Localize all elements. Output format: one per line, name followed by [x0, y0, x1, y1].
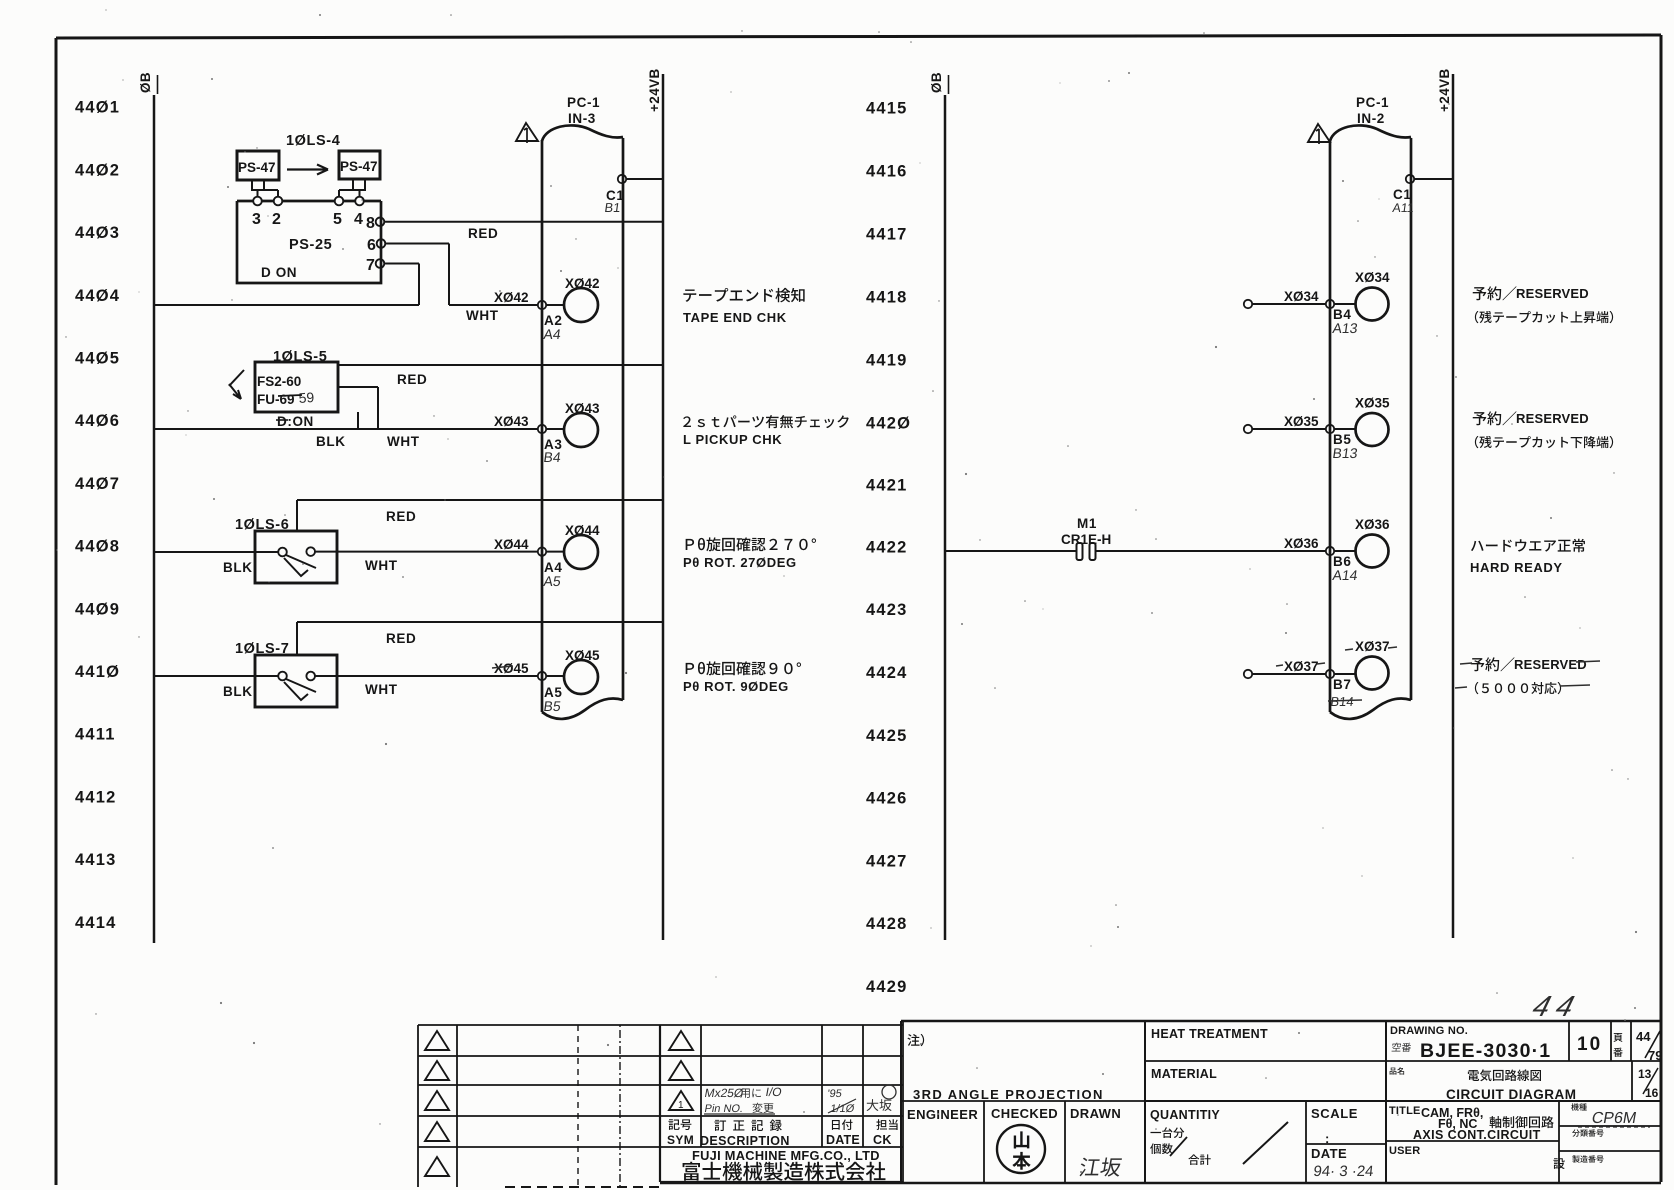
- connector PC-1 IN-2 label: [1356, 95, 1389, 126]
- wire label BLK 4408: [223, 560, 253, 575]
- svg-text:ØB: ØB: [138, 72, 153, 93]
- lamp X045 circle: [564, 660, 598, 694]
- wire label X035: [1284, 414, 1319, 429]
- lamp circle X034: [1356, 288, 1389, 321]
- svg-text:XØ42: XØ42: [565, 276, 600, 291]
- svg-text:DRAWING NO.: DRAWING NO.: [1390, 1025, 1468, 1037]
- svg-text:WHT: WHT: [466, 308, 499, 323]
- node X042 junction: [538, 301, 546, 309]
- svg-text:44: 44: [1636, 1029, 1651, 1044]
- svg-text:44Ø4: 44Ø4: [75, 287, 120, 305]
- svg-text:4413: 4413: [75, 851, 117, 869]
- wire stub X037: [1252, 673, 1326, 675]
- pin 3: [253, 197, 262, 206]
- pin C1 left label: [606, 188, 624, 203]
- svg-text:4422: 4422: [866, 538, 908, 556]
- svg-text:XØ43: XØ43: [494, 414, 529, 429]
- wire label X043: [494, 414, 529, 429]
- wire WHT 4408: [315, 551, 538, 553]
- svg-text:44Ø2: 44Ø2: [75, 161, 120, 179]
- revision rev1 date: [827, 1088, 856, 1115]
- svg-text:ENGINEER: ENGINEER: [907, 1107, 978, 1122]
- comment 2st parts jp: [683, 415, 849, 428]
- wire stub to lamp X034: [1334, 303, 1355, 305]
- sensor PS-47 right box: [339, 151, 380, 179]
- pin 3 label: [252, 211, 262, 228]
- wire pin8 RED to +24VB: [384, 221, 663, 223]
- svg-text:FU-69: FU-69: [257, 392, 295, 407]
- note box frame: [901, 1021, 1145, 1182]
- pin C1 left label B1 handwritten: [604, 200, 622, 215]
- comment p rot 270 jp: [686, 537, 816, 551]
- svg-text:QUANTITIY: QUANTITIY: [1150, 1108, 1220, 1122]
- border frame top: [56, 35, 1661, 38]
- svg-text:SYM: SYM: [667, 1133, 694, 1147]
- material label: [1151, 1067, 1217, 1081]
- node line number 4420: [866, 414, 911, 432]
- wire label RED 4407: [386, 509, 416, 524]
- plug PS-47 right: [339, 179, 366, 197]
- pin C1 right label A11 handwritten: [1392, 201, 1415, 215]
- handwritten 44 top: [1529, 991, 1585, 1023]
- node line number 4417: [866, 225, 908, 243]
- node line number 4401: [75, 99, 120, 117]
- svg-text:B1: B1: [604, 200, 622, 215]
- pin 5 label: [333, 211, 343, 228]
- wire C1 to +24VB left: [626, 178, 663, 180]
- pin A5 label: [544, 685, 562, 700]
- svg-text:+24VB: +24VB: [1437, 68, 1452, 112]
- svg-text:CIRCUIT DIAGRAM: CIRCUIT DIAGRAM: [1446, 1087, 1577, 1102]
- node line number 4415: [866, 99, 908, 117]
- svg-text::: :: [1325, 1131, 1330, 1146]
- pin A4 label: [544, 560, 562, 575]
- wire label RED 4405: [397, 372, 427, 387]
- node line number 4402: [75, 161, 120, 179]
- power supply PS-25 label: [289, 237, 332, 253]
- revision table center frame: [660, 1021, 903, 1182]
- revision header sym: [667, 1119, 694, 1147]
- switch 10LS-7 lever: [284, 679, 316, 700]
- net +24VB rail left: [662, 74, 665, 940]
- cable IN-3 top wave: [542, 125, 623, 141]
- net 0B rail right label: [929, 72, 944, 93]
- wire X044 stub: [546, 551, 564, 553]
- sensor PS-47 right label: [340, 159, 378, 174]
- strike marks X037 wire label: [1276, 663, 1325, 666]
- kishu label: [1571, 1103, 1587, 1110]
- pin 6: [377, 239, 386, 248]
- revision triangle left 3: [425, 1091, 449, 1110]
- relay CR1E-H label: [1061, 532, 1111, 547]
- svg-text:44Ø6: 44Ø6: [75, 412, 120, 430]
- revision triangle left 1: [425, 1031, 449, 1050]
- title block frame: [901, 1021, 1661, 1182]
- cable IN-2 top wave: [1330, 125, 1411, 141]
- arrow PS-47 to PS-47: [287, 165, 328, 175]
- svg-text:4411: 4411: [75, 726, 116, 744]
- revision triangle left 2: [425, 1061, 449, 1080]
- revision rev1 ck sign: [867, 1085, 896, 1111]
- svg-text:DRAWN: DRAWN: [1070, 1106, 1121, 1121]
- svg-text:5: 5: [333, 211, 343, 228]
- svg-text:ØB: ØB: [929, 72, 944, 93]
- svg-text:IN-3: IN-3: [568, 111, 596, 126]
- svg-text:PC-1: PC-1: [567, 95, 600, 110]
- svg-text:13: 13: [1638, 1067, 1652, 1081]
- switch 10LS-6 contact left: [278, 548, 287, 557]
- comment reserved 4420 jp: [1473, 411, 1589, 426]
- svg-text:FS2-60: FS2-60: [257, 374, 301, 389]
- svg-text:RED: RED: [386, 631, 416, 646]
- node line number 4416: [866, 162, 908, 180]
- page 13 16: [1638, 1067, 1659, 1100]
- wire pin7 right: [384, 263, 419, 265]
- node line number 4409: [75, 600, 120, 618]
- svg-text:94· 3 ·24: 94· 3 ·24: [1313, 1163, 1375, 1180]
- svg-text:1ØLS-4: 1ØLS-4: [286, 133, 340, 149]
- svg-text:CHECKED: CHECKED: [991, 1106, 1058, 1121]
- wire label WHT 4404: [466, 308, 499, 323]
- wire FS down WHT: [377, 387, 379, 429]
- svg-text:44Ø7: 44Ø7: [75, 475, 120, 493]
- switch 10LS-4 label: [286, 133, 340, 149]
- pin A2 label: [544, 313, 562, 328]
- pin 7: [376, 259, 385, 268]
- checked label: [991, 1106, 1058, 1121]
- svg-text:D:ON: D:ON: [277, 414, 314, 429]
- sheet 10: [1577, 1034, 1602, 1055]
- wire RED 4409 vertical: [296, 622, 298, 655]
- comment reserved 4420 sub: [1475, 436, 1613, 448]
- lamp X044 circle: [564, 535, 598, 569]
- svg-text:44Ø3: 44Ø3: [75, 224, 120, 242]
- node junction X036: [1326, 547, 1334, 555]
- comment p rot 90 en: [683, 679, 789, 694]
- svg-text:WHT: WHT: [387, 434, 420, 449]
- svg-text:PS-25: PS-25: [289, 237, 332, 253]
- svg-text:XØ37: XØ37: [1284, 659, 1319, 674]
- revision triangle left 4: [425, 1122, 449, 1141]
- pin label B7: [1333, 677, 1351, 692]
- svg-text:MATERIAL: MATERIAL: [1151, 1067, 1217, 1081]
- svg-text:RED: RED: [386, 509, 416, 524]
- wire RED 4409 to +24VB: [297, 621, 663, 623]
- date label: [1311, 1146, 1347, 1161]
- svg-text:BLK: BLK: [223, 684, 253, 699]
- wire stub X034: [1252, 303, 1326, 305]
- svg-text:4419: 4419: [866, 351, 908, 369]
- pin 7 label: [366, 257, 376, 274]
- svg-text:59: 59: [298, 389, 315, 406]
- wire 0B row 4408: [154, 551, 278, 553]
- node X044 junction: [538, 547, 546, 555]
- pin stub X034: [1244, 300, 1252, 308]
- checked hanko: [997, 1125, 1045, 1173]
- quantitiy label: [1150, 1108, 1220, 1122]
- svg-text:RESERVED: RESERVED: [1514, 657, 1587, 672]
- wire 0B to contact 4422: [945, 550, 1076, 552]
- wire X042 stub: [546, 304, 564, 306]
- node junction X034: [1326, 300, 1334, 308]
- svg-text:B7: B7: [1333, 677, 1351, 692]
- svg-text:Pθ ROT. 9ØDEG: Pθ ROT. 9ØDEG: [683, 679, 789, 694]
- setsu mark: [1553, 1158, 1564, 1169]
- svg-text:XØ36: XØ36: [1355, 517, 1390, 532]
- wire label X042: [494, 290, 529, 305]
- pin C1 right label: [1393, 187, 1411, 202]
- svg-text:XØ37: XØ37: [1355, 639, 1390, 654]
- quantity jp labels: [1150, 1122, 1288, 1165]
- sensor PS-47 left label: [238, 160, 276, 175]
- revision triangle left 5: [425, 1157, 449, 1176]
- revision triangle center rev1: [669, 1091, 693, 1111]
- wire WHT 4410: [315, 675, 538, 677]
- pin A3 label: [544, 437, 562, 452]
- warning triangle note 1 left: [516, 123, 538, 143]
- pin stub X037: [1244, 670, 1252, 678]
- revision header date: [826, 1119, 860, 1147]
- scale label: [1311, 1106, 1358, 1121]
- relay M1 label: [1077, 516, 1097, 531]
- revision rev1 description: [703, 1085, 782, 1100]
- warning triangle note 1 right: [1308, 124, 1330, 144]
- svg-text:BJEE-3030·1: BJEE-3030·1: [1420, 1040, 1551, 1062]
- border frame bottom: [505, 1183, 1661, 1187]
- pin 4: [355, 197, 364, 206]
- wire pin6 right: [385, 243, 449, 245]
- plug PS-47 left: [251, 180, 278, 197]
- svg-text:6: 6: [367, 237, 377, 254]
- svg-text:4423: 4423: [866, 601, 908, 619]
- pin A5 handwritten: [543, 573, 563, 589]
- wire RED 4407 to +24VB: [297, 499, 663, 501]
- svg-text:44: 44: [1529, 991, 1585, 1023]
- node line number 4424: [866, 664, 908, 682]
- svg-text:BLK: BLK: [316, 434, 346, 449]
- node X045 junction: [538, 672, 546, 680]
- node junction X035: [1326, 425, 1334, 433]
- cable IN-2 bottom wave: [1330, 698, 1411, 718]
- node line number 4429: [866, 978, 908, 996]
- switch 10LS-7 label: [235, 641, 289, 657]
- svg-text:1: 1: [678, 1100, 684, 1111]
- pin handwritten A13: [1332, 320, 1359, 336]
- strike marks reserved 4424: [1455, 661, 1600, 688]
- svg-text:DESCRIPTION: DESCRIPTION: [700, 1134, 790, 1148]
- svg-text:Pin NO.: Pin NO.: [703, 1103, 744, 1115]
- scale colon: [1325, 1131, 1330, 1146]
- svg-text:B13: B13: [1332, 445, 1359, 461]
- projection label: [913, 1087, 1104, 1102]
- seizo label: [1572, 1155, 1603, 1162]
- switch 10LS-7 box: [255, 655, 337, 707]
- svg-text:XØ45: XØ45: [494, 661, 529, 676]
- svg-text:B4: B4: [543, 449, 563, 465]
- revision triangle center 2: [669, 1061, 693, 1080]
- cable IN-3 left edge: [541, 140, 544, 712]
- svg-text:A4: A4: [543, 326, 563, 342]
- pin handwritten A14: [1332, 567, 1359, 583]
- node line number 4408: [75, 538, 120, 556]
- node line number 4404: [75, 287, 120, 305]
- svg-text:RED: RED: [468, 226, 498, 241]
- lamp circle X036: [1356, 535, 1389, 568]
- maker name en: [692, 1148, 880, 1163]
- net 0B rail left: [154, 75, 158, 943]
- svg-text:CP6M: CP6M: [1590, 1109, 1638, 1127]
- svg-text:WHT: WHT: [365, 558, 398, 573]
- wire stub to lamp X035: [1334, 428, 1355, 430]
- switch 10LS-5 label: [273, 349, 327, 365]
- svg-text:XØ44: XØ44: [494, 537, 529, 552]
- kishu value handwritten: [1578, 1109, 1650, 1127]
- revision triangle center 1: [669, 1031, 693, 1050]
- svg-text:XØ45: XØ45: [565, 648, 600, 663]
- pin label B4: [1333, 307, 1351, 322]
- svg-text:Mx25Ø: Mx25Ø: [703, 1086, 744, 1100]
- contact M1 bar right: [1090, 543, 1096, 560]
- border frame right: [1660, 35, 1663, 1182]
- svg-text:XØ36: XØ36: [1284, 536, 1319, 551]
- sensor PS-47 left box: [237, 151, 279, 180]
- wire label X034: [1284, 289, 1319, 304]
- node line number 4403: [75, 224, 120, 242]
- svg-text:4424: 4424: [866, 664, 908, 682]
- node line number 4405: [75, 350, 120, 368]
- node line number 4411: [75, 726, 116, 744]
- lamp X042 label: [565, 276, 600, 291]
- comment reserved 4418 jp: [1473, 286, 1589, 301]
- heat treatment label: [1151, 1027, 1268, 1041]
- wire label BLK 4410: [223, 684, 253, 699]
- svg-text:441Ø: 441Ø: [75, 663, 120, 681]
- svg-text:L PICKUP CHK: L PICKUP CHK: [683, 432, 782, 447]
- svg-text:DATE: DATE: [1311, 1146, 1347, 1161]
- node line number 4423: [866, 601, 908, 619]
- wire label RED 4409: [386, 631, 416, 646]
- svg-text:4425: 4425: [866, 727, 908, 745]
- comment p rot 90 jp: [686, 661, 801, 675]
- svg-text:HARD READY: HARD READY: [1470, 560, 1563, 575]
- svg-text:XØ34: XØ34: [1284, 289, 1319, 304]
- engineer label: [907, 1107, 978, 1122]
- svg-text:BLK: BLK: [223, 560, 253, 575]
- cable IN-2 right edge: [1410, 138, 1413, 700]
- svg-text:XØ43: XØ43: [565, 401, 600, 416]
- svg-text:4428: 4428: [866, 915, 908, 933]
- svg-text:TAPE END CHK: TAPE END CHK: [683, 310, 787, 325]
- pin B5 handwritten: [543, 698, 563, 714]
- svg-text:+24VB: +24VB: [647, 68, 662, 112]
- svg-text:PC-1: PC-1: [1356, 95, 1389, 110]
- bunrui label: [1572, 1129, 1603, 1136]
- svg-text:XØ35: XØ35: [1355, 396, 1390, 411]
- svg-text:M1: M1: [1077, 516, 1097, 531]
- svg-text:8: 8: [366, 215, 376, 232]
- svg-text:RESERVED: RESERVED: [1516, 286, 1589, 301]
- node line number 4422: [866, 538, 908, 556]
- title cam fr: [1421, 1106, 1554, 1131]
- node junction X037: [1326, 670, 1334, 678]
- comment tape end chk jp: [683, 288, 804, 302]
- comment reserved 4424 sub: [1475, 682, 1561, 694]
- svg-text:AXIS CONT.CIRCUIT: AXIS CONT.CIRCUIT: [1413, 1128, 1541, 1142]
- hinmei label: [1390, 1067, 1405, 1074]
- svg-text:4: 4: [354, 211, 364, 228]
- node line number 4428: [866, 915, 908, 933]
- svg-text:SCALE: SCALE: [1311, 1106, 1358, 1121]
- svg-text:4426: 4426: [866, 790, 908, 808]
- wire label X045: [492, 661, 529, 676]
- svg-text:4418: 4418: [866, 289, 908, 307]
- strike marks X037 lamp label: [1345, 647, 1397, 650]
- drawing number value: [1420, 1040, 1551, 1062]
- svg-text:Pθ ROT. 27ØDEG: Pθ ROT. 27ØDEG: [683, 555, 797, 570]
- svg-text:'95: '95: [827, 1088, 843, 1100]
- node line number 4425: [866, 727, 908, 745]
- circuit diagram jp: [1468, 1069, 1541, 1081]
- lamp label X036: [1355, 517, 1390, 532]
- wire stub to lamp X037: [1334, 673, 1355, 675]
- svg-text:IN-2: IN-2: [1357, 111, 1385, 126]
- drawing no label: [1390, 1025, 1468, 1037]
- maker name jp: [683, 1162, 886, 1181]
- drawn sign: [1079, 1157, 1123, 1176]
- node line number 4426: [866, 790, 908, 808]
- svg-text:XØ44: XØ44: [565, 523, 600, 538]
- lamp label X037: [1355, 639, 1390, 654]
- connector PC-1 IN-3 label: [567, 95, 600, 126]
- svg-text:4415: 4415: [866, 99, 908, 117]
- wire label WHT 4406: [387, 434, 420, 449]
- wire label RED 4403: [468, 226, 498, 241]
- sensor FS2-60 box: [255, 362, 338, 412]
- power supply PS-25 box: [237, 201, 381, 283]
- svg-text:A13: A13: [1332, 320, 1359, 336]
- svg-text:4416: 4416: [866, 162, 908, 180]
- net +24VB rail right label: [1437, 68, 1452, 112]
- svg-text:HEAT TREATMENT: HEAT TREATMENT: [1151, 1027, 1268, 1041]
- wire FS right stub: [338, 386, 378, 388]
- switch 10LS-6 label: [235, 517, 289, 533]
- wire stub to lamp X036: [1334, 550, 1355, 552]
- svg-text:7: 7: [366, 257, 376, 274]
- page kanji: [1613, 1033, 1622, 1057]
- comment hard ready en: [1470, 560, 1563, 575]
- lamp label X035: [1355, 396, 1390, 411]
- svg-text:4427: 4427: [866, 852, 908, 870]
- svg-text:4417: 4417: [866, 225, 908, 243]
- svg-text:C1: C1: [1393, 187, 1411, 202]
- wire label WHT 4408: [365, 558, 398, 573]
- svg-text:10: 10: [1577, 1034, 1602, 1055]
- svg-text:RED: RED: [397, 372, 427, 387]
- wire RED 4405 to +24VB: [338, 364, 663, 366]
- drawn label: [1070, 1106, 1121, 1121]
- node line number 4414: [75, 914, 117, 932]
- lamp X042 circle: [564, 288, 598, 322]
- title label: [1389, 1105, 1421, 1117]
- node line number 4418: [866, 289, 908, 307]
- wire X042 to cable: [449, 304, 538, 306]
- pin 8 label: [366, 215, 376, 232]
- switch 10LS-7 contact right: [306, 672, 315, 681]
- pin 8: [376, 218, 385, 227]
- page 44 79: [1636, 1029, 1662, 1063]
- revision rev1 description2: [703, 1103, 775, 1115]
- switch 10LS-6 contact right: [306, 547, 315, 556]
